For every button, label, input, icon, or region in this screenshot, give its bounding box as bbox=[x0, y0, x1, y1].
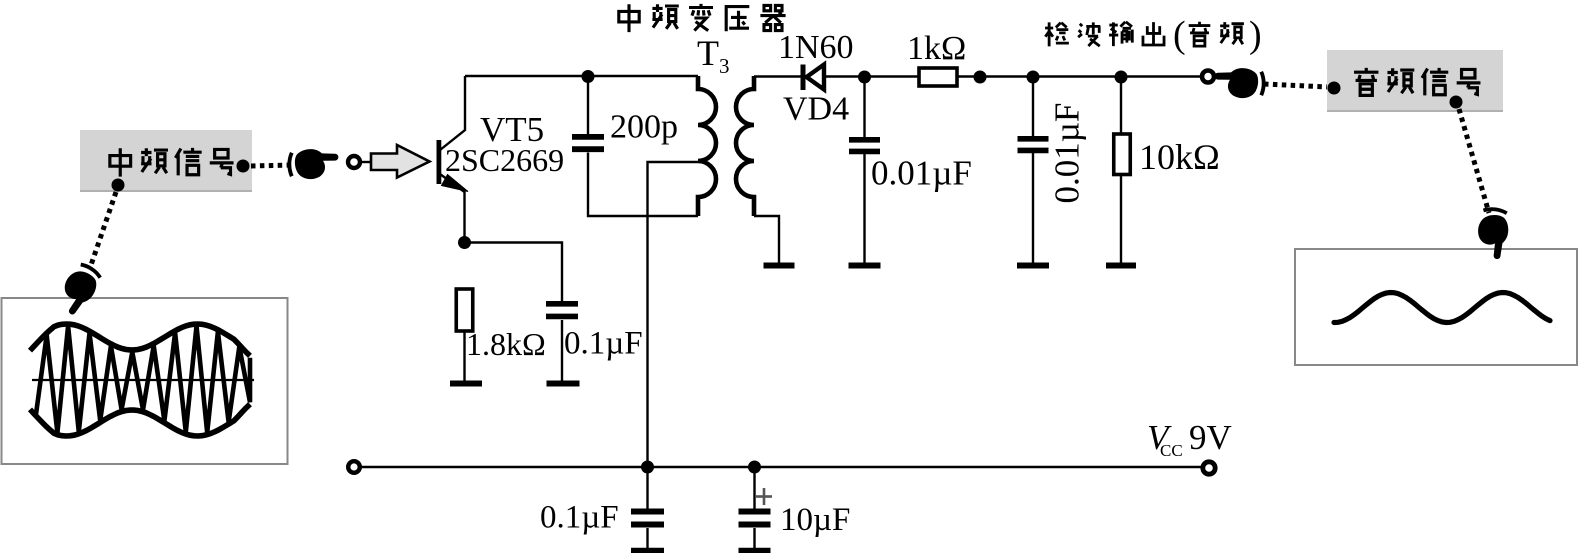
svg-text:10µF: 10µF bbox=[780, 502, 850, 538]
wire secondary to diode bbox=[754, 75, 802, 77]
ground 0.1uF emitter bbox=[547, 381, 580, 387]
svg-text:0.01µF: 0.01µF bbox=[871, 154, 972, 193]
junction node top rail at 200p bbox=[582, 70, 595, 83]
label Vcc 9V bbox=[1147, 418, 1232, 460]
transformer T3 secondary winding bbox=[736, 76, 754, 216]
capacitor 10uF bbox=[739, 509, 771, 515]
svg-text:VD4: VD4 bbox=[783, 91, 849, 128]
capacitor 0.01uF second bbox=[1018, 136, 1049, 142]
wire 1k to output bbox=[957, 75, 1202, 77]
transistor VT5 emitter lead bbox=[440, 174, 465, 243]
bottom rail terminal left bbox=[348, 461, 360, 473]
node dot on audio label bottom bbox=[1450, 96, 1463, 109]
svg-text:CC: CC bbox=[1160, 441, 1183, 460]
transistor VT5 base bar bbox=[437, 140, 442, 184]
wire 0.01uF(2) top bbox=[1032, 77, 1034, 137]
input terminal bbox=[348, 156, 360, 168]
junction node at 0.01uF second bbox=[1027, 71, 1040, 84]
svg-text:3: 3 bbox=[719, 54, 730, 78]
wire top rail collector to primary bbox=[465, 75, 698, 77]
ground 0.01uF first bbox=[849, 263, 881, 269]
polarity plus sign of 10uF bbox=[756, 488, 772, 505]
label 中频变压器 (IF transformer) bbox=[619, 4, 786, 32]
wire 0.1uF bottom top bbox=[646, 467, 648, 509]
junction node at 10k bbox=[1115, 71, 1128, 84]
pointing hand at sine box bbox=[1475, 206, 1511, 260]
wire bottom rail Vcc bbox=[360, 466, 1203, 468]
resistor R 10k bbox=[1114, 134, 1131, 175]
svg-text:0.1µF: 0.1µF bbox=[564, 326, 643, 362]
wire primary tap bbox=[648, 162, 699, 467]
audio waveform box (sine scope view) bbox=[1295, 249, 1577, 365]
wire 10k bottom bbox=[1120, 175, 1122, 264]
dashed pointer wire from IF label down to waveform box bbox=[90, 192, 116, 268]
svg-text:): ) bbox=[1249, 14, 1262, 56]
resistor R 1.8k bbox=[456, 289, 473, 331]
svg-text:T: T bbox=[697, 33, 719, 73]
label T3 bbox=[697, 33, 730, 78]
wire 0.01uF(2) bottom bbox=[1032, 153, 1034, 263]
pointing hand at AM waveform box bbox=[52, 259, 105, 318]
wire emitter node to bypass cap bbox=[465, 243, 563, 302]
ground 0.01uF second bbox=[1017, 263, 1049, 269]
junction node emitter bbox=[458, 236, 471, 249]
capacitor C 200p bbox=[572, 134, 604, 140]
ground 10k bbox=[1106, 263, 1136, 269]
wire 0.01uF(1) bottom bbox=[863, 154, 865, 263]
node dot on audio label left bbox=[1328, 82, 1341, 95]
pointing hand at IF input bbox=[287, 149, 338, 179]
wire secondary bottom to ground bbox=[754, 216, 779, 263]
junction node after 1k bbox=[974, 71, 987, 84]
node dot at IF label bottom bbox=[112, 179, 125, 192]
wire 200p top bbox=[587, 76, 589, 135]
junction node bottom rail at 10uF bbox=[748, 461, 761, 474]
label box: 中频信号 (IF signal) bbox=[80, 130, 252, 192]
output terminal bbox=[1202, 71, 1214, 83]
dashed pointer wire audio label to sine box bbox=[1459, 109, 1489, 213]
svg-text:9V: 9V bbox=[1189, 418, 1232, 457]
capacitor 0.01uF first bbox=[849, 137, 880, 143]
wire 10uF lower bbox=[753, 528, 755, 549]
label 检波输出(音频) (detector output audio) bbox=[1045, 14, 1262, 56]
svg-text:(: ( bbox=[1173, 14, 1186, 56]
signal flow block arrow into base bbox=[371, 145, 430, 178]
svg-text:10kΩ: 10kΩ bbox=[1139, 137, 1220, 177]
wire 0.01uF(1) top bbox=[863, 77, 865, 138]
wire 200p bottom bbox=[588, 153, 698, 217]
ground 1.8k bbox=[450, 381, 482, 387]
ground 0.1uF bottom bbox=[631, 548, 664, 553]
svg-text:1.8kΩ: 1.8kΩ bbox=[466, 326, 546, 362]
svg-text:2SC2669: 2SC2669 bbox=[445, 142, 564, 178]
svg-text:0.1µF: 0.1µF bbox=[540, 500, 619, 536]
svg-text:200p: 200p bbox=[610, 109, 678, 146]
diode VD4 1N60 bbox=[801, 65, 825, 91]
resistor R 1k bbox=[919, 68, 957, 86]
svg-text:1kΩ: 1kΩ bbox=[907, 30, 966, 67]
ground secondary bbox=[764, 263, 795, 269]
transformer T3 primary winding bbox=[698, 76, 716, 216]
AM waveform box (IF signal scope view) bbox=[2, 298, 288, 464]
ground 10uF bbox=[739, 548, 771, 553]
transistor VT5 collector lead bbox=[440, 76, 465, 150]
junction node diode output bbox=[858, 71, 871, 84]
label box: 音频信号 (audio signal) bbox=[1327, 50, 1503, 112]
capacitor 0.1uF bottom bbox=[631, 509, 664, 515]
svg-text:1N60: 1N60 bbox=[778, 29, 854, 66]
wire 0.1uF bottom lower bbox=[646, 528, 648, 549]
wire diode to 1k resistor bbox=[824, 75, 919, 77]
transistor VT5 emitter arrow bbox=[442, 175, 469, 192]
bottom rail terminal right (Vcc) bbox=[1203, 462, 1215, 474]
wire 10k top bbox=[1120, 77, 1122, 134]
wire input terminal to signal arrow bbox=[360, 161, 372, 163]
dashed pointer wire from IF label to hand bbox=[251, 165, 292, 166]
node dot on IF label right edge bbox=[237, 160, 250, 173]
pointing hand at output bbox=[1215, 68, 1266, 98]
wire 1.8k bottom bbox=[463, 331, 465, 381]
wire 0.1uF emitter bottom bbox=[561, 320, 563, 381]
svg-text:0.01µF: 0.01µF bbox=[1048, 103, 1087, 204]
wire 10uF top bbox=[753, 467, 755, 509]
capacitor 0.1uF emitter bbox=[546, 301, 578, 307]
junction node bottom rail at 0.1uF bbox=[641, 461, 654, 474]
dashed pointer wire output to audio label bbox=[1264, 84, 1328, 87]
